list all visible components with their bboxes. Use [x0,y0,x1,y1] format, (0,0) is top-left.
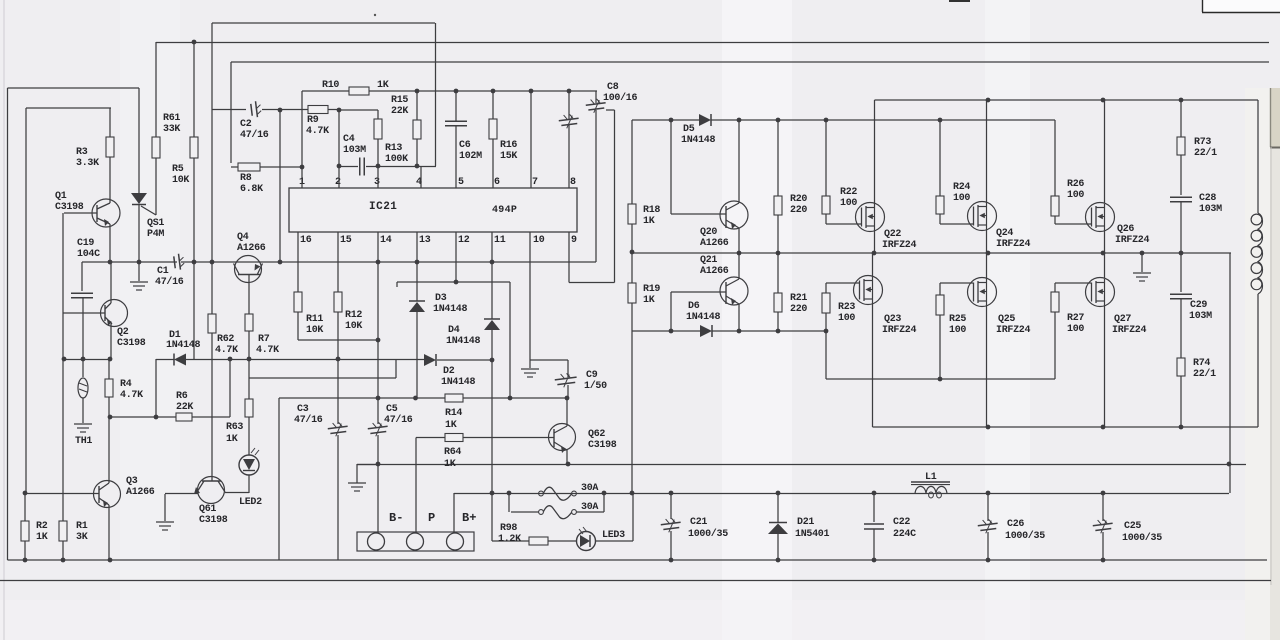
svg-text:100: 100 [953,193,970,204]
svg-text:R26: R26 [1067,179,1084,190]
svg-text:D2: D2 [443,366,455,377]
svg-text:P: P [428,511,435,525]
svg-text:1K: 1K [36,532,48,543]
svg-text:R27: R27 [1067,313,1084,324]
svg-text:Q23: Q23 [884,314,901,325]
svg-text:22K: 22K [391,106,408,117]
svg-text:30A: 30A [581,483,598,494]
svg-text:R2: R2 [36,521,48,532]
svg-text:2: 2 [335,177,341,188]
svg-text:100: 100 [949,325,966,336]
svg-text:6: 6 [494,177,500,188]
svg-text:1/50: 1/50 [584,380,607,392]
svg-text:IRFZ24: IRFZ24 [996,239,1031,250]
svg-text:R8: R8 [240,173,252,184]
svg-text:4.7K: 4.7K [215,345,238,356]
svg-text:1K: 1K [643,216,655,227]
svg-text:C21: C21 [690,517,707,528]
svg-text:R22: R22 [840,187,857,198]
svg-text:1.2K: 1.2K [498,534,521,545]
svg-text:104C: 104C [77,249,100,260]
svg-text:4.7K: 4.7K [306,126,329,137]
svg-text:7: 7 [532,177,538,188]
svg-text:C19: C19 [77,238,94,249]
svg-text:47/16: 47/16 [294,414,323,426]
svg-text:C26: C26 [1007,519,1024,530]
svg-text:R63: R63 [226,422,243,433]
svg-text:47/16: 47/16 [240,129,269,141]
svg-text:R20: R20 [790,194,807,205]
svg-text:C1: C1 [157,266,169,277]
svg-text:4.7K: 4.7K [256,345,279,356]
svg-text:8: 8 [570,177,576,188]
svg-text:3K: 3K [76,532,88,543]
svg-text:A1266: A1266 [700,266,729,277]
svg-text:C3198: C3198 [199,515,228,526]
svg-text:103М: 103М [1189,311,1212,322]
svg-text:R11: R11 [306,314,323,325]
svg-text:C4: C4 [343,134,355,145]
svg-text:1N4148: 1N4148 [686,312,721,323]
svg-text:494P: 494P [492,205,517,216]
svg-text:1N4148: 1N4148 [433,304,468,315]
svg-text:100: 100 [1067,190,1084,201]
svg-text:100: 100 [838,313,855,324]
svg-text:33K: 33K [163,124,180,135]
svg-text:1K: 1K [445,420,457,431]
svg-text:C2: C2 [240,119,252,130]
svg-text:R7: R7 [258,334,270,345]
svg-text:47/16: 47/16 [155,276,184,288]
svg-text:1N4148: 1N4148 [441,377,476,388]
svg-text:R3: R3 [76,147,88,158]
svg-text:1K: 1K [643,295,655,306]
svg-text:R73: R73 [1194,137,1211,148]
svg-text:R4: R4 [120,379,132,390]
svg-text:Q24: Q24 [996,228,1013,239]
svg-text:Q3: Q3 [126,476,138,487]
svg-text:30A: 30A [581,502,598,513]
svg-text:Q20: Q20 [700,227,717,238]
svg-text:Q22: Q22 [884,229,901,240]
svg-text:220: 220 [790,205,807,216]
svg-text:R19: R19 [643,284,660,295]
svg-text:R24: R24 [953,182,970,193]
svg-text:C28: C28 [1199,193,1216,204]
svg-text:R13: R13 [385,143,402,154]
svg-text:4.7K: 4.7K [120,390,143,401]
svg-text:TH1: TH1 [75,436,92,447]
svg-text:R1: R1 [76,521,88,532]
svg-text:R25: R25 [949,314,966,325]
svg-text:100K: 100K [385,154,408,165]
svg-text:Q26: Q26 [1117,224,1134,235]
svg-text:10K: 10K [345,321,362,332]
svg-text:D4: D4 [448,325,460,336]
svg-text:A1266: A1266 [237,243,266,254]
svg-text:13: 13 [419,235,431,246]
svg-text:12: 12 [458,235,470,246]
svg-text:D5: D5 [683,124,695,135]
svg-text:224C: 224C [893,529,916,540]
svg-text:3.3K: 3.3K [76,158,99,169]
svg-text:P4M: P4M [147,229,164,240]
svg-text:R62: R62 [217,334,234,345]
svg-text:1K: 1K [377,80,389,91]
svg-text:Q61: Q61 [199,504,216,515]
svg-text:1000/35: 1000/35 [688,528,728,540]
svg-text:LED2: LED2 [239,497,262,508]
svg-text:R98: R98 [500,523,517,534]
svg-text:1K: 1K [226,434,238,445]
svg-text:R6: R6 [176,391,188,402]
svg-text:IRFZ24: IRFZ24 [1112,325,1147,336]
svg-text:1N4148: 1N4148 [446,336,481,347]
svg-text:3: 3 [374,177,380,188]
svg-text:100/16: 100/16 [603,92,638,104]
svg-text:1000/35: 1000/35 [1005,530,1045,542]
svg-text:IRFZ24: IRFZ24 [882,240,917,251]
svg-text:Q1: Q1 [55,191,67,202]
svg-text:QS1: QS1 [147,218,164,229]
svg-text:100: 100 [1067,324,1084,335]
svg-text:103М: 103М [343,145,366,156]
svg-text:C9: C9 [586,370,598,381]
svg-text:R64: R64 [444,447,461,458]
svg-text:D6: D6 [688,301,700,312]
svg-text:11: 11 [494,235,506,246]
svg-text:47/16: 47/16 [384,414,413,426]
svg-text:R5: R5 [172,164,184,175]
svg-text:1000/35: 1000/35 [1122,532,1162,544]
svg-text:220: 220 [790,304,807,315]
svg-text:R16: R16 [500,140,517,151]
svg-text:D21: D21 [797,517,814,528]
svg-text:C29: C29 [1190,300,1207,311]
svg-text:100: 100 [840,198,857,209]
svg-text:A1266: A1266 [700,238,729,249]
svg-text:Q4: Q4 [237,232,249,243]
svg-text:5: 5 [458,177,464,188]
svg-text:B-: B- [389,511,403,525]
svg-text:22K: 22K [176,402,193,413]
svg-text:22/1: 22/1 [1193,368,1216,380]
svg-text:C6: C6 [459,140,471,151]
svg-text:L1: L1 [925,472,937,483]
svg-text:C3198: C3198 [55,202,84,213]
svg-text:10K: 10K [172,175,189,186]
svg-text:IC21: IC21 [369,201,397,213]
svg-text:C22: C22 [893,517,910,528]
svg-text:C3198: C3198 [117,338,146,349]
svg-text:15K: 15K [500,151,517,162]
svg-text:C25: C25 [1124,521,1141,532]
svg-text:Q21: Q21 [700,255,717,266]
svg-text:14: 14 [380,235,392,246]
svg-text:102М: 102М [459,151,482,162]
svg-text:Q27: Q27 [1114,314,1131,325]
svg-text:R10: R10 [322,80,339,91]
svg-text:R18: R18 [643,205,660,216]
svg-text:Q62: Q62 [588,429,605,440]
svg-text:C3: C3 [297,404,309,415]
svg-text:10K: 10K [306,325,323,336]
svg-text:6.8K: 6.8K [240,184,263,195]
svg-text:1N4148: 1N4148 [166,340,201,351]
svg-text:1N5401: 1N5401 [795,529,830,540]
svg-text:C3198: C3198 [588,440,617,451]
svg-text:D3: D3 [435,293,447,304]
svg-text:IRFZ24: IRFZ24 [996,325,1031,336]
svg-text:22/1: 22/1 [1194,147,1217,159]
svg-text:R9: R9 [307,115,319,126]
svg-text:R61: R61 [163,113,180,124]
svg-text:R14: R14 [445,408,462,419]
svg-text:15: 15 [340,235,352,246]
svg-text:1K: 1K [444,459,456,470]
svg-text:IRFZ24: IRFZ24 [1115,235,1150,246]
svg-text:16: 16 [300,235,312,246]
svg-text:LED3: LED3 [602,530,625,541]
svg-text:C5: C5 [386,404,398,415]
svg-text:Q2: Q2 [117,327,129,338]
svg-text:B+: B+ [462,511,476,525]
svg-text:C8: C8 [607,82,619,93]
svg-text:103М: 103М [1199,204,1222,215]
svg-text:R15: R15 [391,95,408,106]
svg-text:9: 9 [571,235,577,246]
svg-text:R23: R23 [838,302,855,313]
svg-text:R21: R21 [790,293,807,304]
svg-text:Q25: Q25 [998,314,1015,325]
svg-text:A1266: A1266 [126,487,155,498]
svg-text:IRFZ24: IRFZ24 [882,325,917,336]
svg-text:R12: R12 [345,310,362,321]
svg-text:10: 10 [533,235,545,246]
svg-text:R74: R74 [1193,358,1210,369]
svg-text:1N4148: 1N4148 [681,135,716,146]
